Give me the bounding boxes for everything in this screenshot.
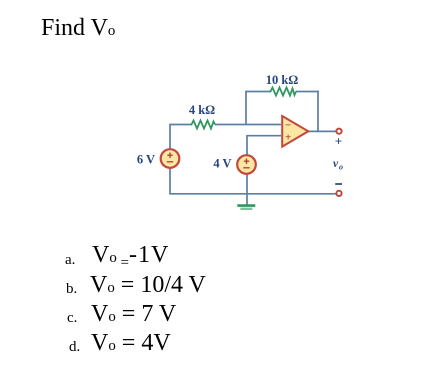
wire: feedback top horizontal with 10k resistor [245, 91, 319, 93]
terminal - output node [336, 191, 341, 196]
answer option c [67, 310, 77, 327]
wire: plus input horizontal [246, 135, 281, 137]
ground [237, 206, 255, 209]
label vo at output [333, 158, 343, 172]
answer option b [66, 281, 77, 298]
svg-text:+: + [335, 134, 342, 149]
wire: left vertical from 6V source to bottom rail [169, 168, 171, 194]
label minus sign at output [335, 183, 342, 185]
wire: vertical from plus input down to 4V source [246, 136, 248, 155]
resistor R2 10 kOhm zigzag [269, 88, 296, 96]
resistor R1 4 kOhm zigzag [190, 121, 215, 129]
wire: from 4V source bottom to bottom rail and ground stem [246, 174, 248, 205]
svg-text:−: − [285, 120, 291, 132]
terminal + output node [336, 129, 341, 134]
wire: top horizontal input wire with 4k resistor to op-amp minus input [169, 124, 281, 126]
wire: feedback left vertical [245, 92, 247, 125]
op-amp U1 [282, 116, 308, 147]
svg-text:6 V: 6 V [137, 153, 155, 167]
label 4 kOhm [189, 103, 215, 117]
svg-text:4 V: 4 V [213, 156, 231, 170]
title Find Vo [41, 15, 115, 42]
label 4 V [213, 156, 231, 170]
answer option d [69, 339, 80, 356]
wire: bottom rail [169, 193, 335, 195]
answer option a [65, 252, 75, 269]
source V1 6V [161, 149, 180, 168]
svg-text:10 kΩ: 10 kΩ [266, 73, 299, 87]
wire: op-amp output to terminal [308, 130, 337, 132]
wire: left vertical from 4k wire down to 6V source [169, 125, 171, 150]
svg-text:o: o [339, 163, 343, 172]
svg-text:+: + [285, 132, 291, 144]
label 6 V [137, 153, 155, 167]
label plus sign at output [335, 134, 342, 149]
label 10 kOhm [266, 73, 299, 87]
source V2 4V [237, 155, 256, 174]
svg-text:4 kΩ: 4 kΩ [189, 103, 215, 117]
wire: feedback right vertical down to output node [317, 91, 319, 132]
